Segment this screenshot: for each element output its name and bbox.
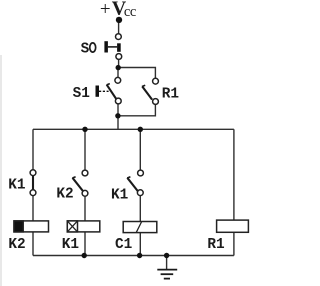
- pushbutton S1: [96, 77, 122, 104]
- S1 blade serif: [107, 84, 110, 85]
- wire left rail mid: [32, 196, 34, 221]
- R1 terminal circle top: [153, 78, 159, 84]
- wire branch K2 upper: [84, 129, 86, 170]
- R1 blade: [142, 86, 152, 99]
- wire J2 to bus: [117, 116, 119, 130]
- wire branch K1 lower: [139, 233, 141, 256]
- K1 circle bottom: [137, 190, 143, 196]
- node bottom K1 junction: [82, 253, 87, 258]
- K1 NC blade: [32, 175, 34, 192]
- S0 actuator cap: [104, 41, 108, 52]
- relay contact K2 (NO): [72, 170, 88, 196]
- coil K2 (box with filled end): [14, 221, 49, 232]
- R1 terminal circle bottom: [153, 99, 159, 105]
- S1 terminal circle top: [115, 77, 121, 83]
- node Vcc terminal dot: [116, 17, 122, 23]
- K1 blade: [127, 178, 138, 192]
- coil K1 (box with X end): [67, 221, 100, 232]
- relay contact K1 mid (NO): [127, 170, 143, 196]
- svg-text:R1: R1: [207, 237, 225, 253]
- node bottom C1 junction: [137, 253, 142, 258]
- S1 terminal circle bottom: [115, 98, 121, 104]
- S1 blade: [107, 85, 117, 100]
- S0 bridge bar: [117, 43, 121, 52]
- wire S0 to node J1: [118, 60, 120, 68]
- svg-text:S: S: [81, 41, 90, 57]
- S1 actuator cap: [96, 86, 100, 97]
- K1 NC circle top: [30, 170, 36, 176]
- wire branch K1 upper: [139, 129, 141, 170]
- K2 circle top: [82, 170, 88, 176]
- wire J1 to R1 contact top: [118, 68, 155, 79]
- wire branch K2 lower: [84, 232, 86, 256]
- svg-text:K2: K2: [56, 186, 73, 202]
- wire right rail upper: [233, 129, 235, 220]
- wire branch K2 mid: [84, 196, 86, 221]
- wire Vcc to S0: [118, 20, 120, 34]
- svg-text:K1: K1: [8, 177, 26, 193]
- K1 NC circle bottom: [30, 190, 36, 196]
- wire branch K1 mid: [139, 196, 141, 222]
- wire J1 to S1 top: [117, 68, 119, 78]
- pushbutton S0: [104, 34, 121, 60]
- wire bottom bus: [33, 255, 234, 257]
- K2 circle bottom: [82, 190, 88, 196]
- K2 blade serif: [72, 177, 75, 178]
- wire S1 bottom to node J2: [117, 104, 119, 116]
- wire ground stub: [166, 256, 168, 270]
- svg-text:S1: S1: [73, 86, 91, 102]
- relay contact R1 (NO): [142, 78, 158, 104]
- wire right rail lower: [233, 232, 235, 255]
- S0 actuator link: [108, 46, 117, 48]
- label +Vcc: [100, 0, 136, 20]
- node bus-K2 junction: [82, 127, 87, 132]
- svg-text:R1: R1: [162, 87, 180, 103]
- S1 actuator dashed link: [99, 90, 109, 92]
- node bus-K1 junction: [138, 127, 143, 132]
- node J2: [115, 113, 120, 118]
- svg-text:cc: cc: [124, 4, 136, 20]
- R1 blade serif: [142, 85, 145, 86]
- ground: [157, 270, 177, 279]
- svg-text:+: +: [100, 0, 111, 20]
- resistor R1 (box): [217, 220, 249, 232]
- wire R1 contact bottom to J2: [118, 105, 155, 116]
- K2 blade: [73, 178, 84, 192]
- S0 terminal circle top: [116, 34, 122, 40]
- svg-text:C1: C1: [115, 237, 133, 253]
- coil C1 (box with slash): [123, 222, 157, 233]
- wire left rail lower: [32, 232, 34, 256]
- wire top bus: [33, 128, 234, 130]
- wire left rail upper: [32, 129, 34, 169]
- page edge artifact: [0, 55, 2, 286]
- svg-text:K1: K1: [111, 188, 129, 204]
- svg-text:K2: K2: [8, 237, 25, 253]
- node J1: [116, 65, 121, 70]
- K1 blade serif: [127, 177, 130, 178]
- relay contact K1 left (NC, closed): [30, 170, 36, 196]
- node bottom ground junction: [164, 253, 169, 258]
- svg-text:K1: K1: [62, 237, 80, 253]
- K1 circle top: [138, 170, 144, 176]
- S0 terminal circle bottom: [116, 54, 122, 60]
